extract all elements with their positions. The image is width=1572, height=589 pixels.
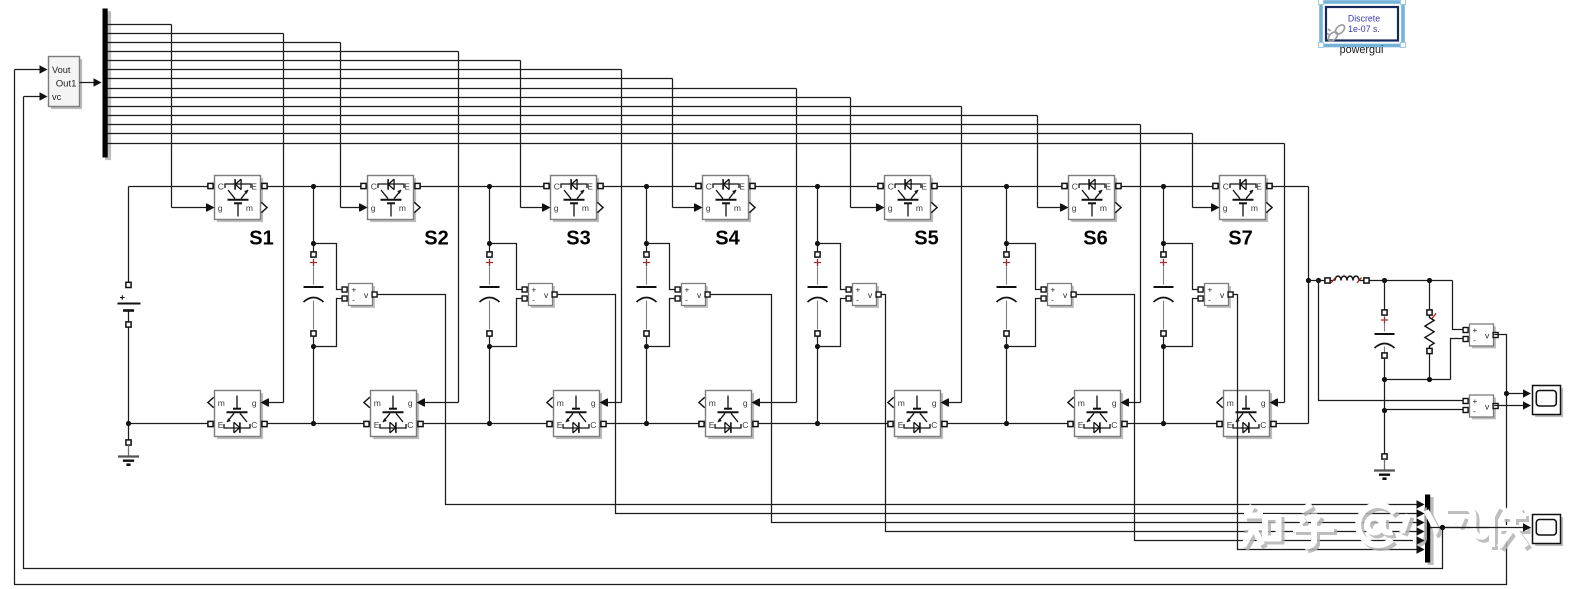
mux (6-to-1 capacitor voltages) bar <box>1425 495 1434 566</box>
label S6 <box>1083 228 1107 250</box>
svg-text:S4: S4 <box>715 228 740 250</box>
svg-text:powergui: powergui <box>1340 44 1384 56</box>
wire gate signal 8 to S4 lower IGBT gate <box>108 89 797 407</box>
label S3 <box>566 228 590 250</box>
oscilloscope Scope1 <box>1533 386 1564 418</box>
wire node to voltmeter VM7 plus <box>1453 281 1463 330</box>
transistor S3 lower IGBT/Diode block <box>547 391 607 440</box>
label S7 <box>1228 228 1252 250</box>
wire Out1 to demux with arrow <box>80 78 102 86</box>
watermark zhihu text <box>1242 505 1531 551</box>
controller subsystem block (Vout/vc -> Out1) <box>49 57 83 110</box>
wire gate signal 9 to S5 upper IGBT gate <box>108 98 885 212</box>
transistor S1 lower IGBT/Diode block <box>208 391 268 440</box>
wire mux output to Scope2 and vc feedback <box>24 97 1532 569</box>
voltmeter VM3 capacitor voltage measurement <box>675 284 710 308</box>
capacitor C5 flying capacitor <box>997 184 1017 426</box>
wire inductor to load network <box>1360 278 1453 283</box>
ground symbol left <box>118 424 139 465</box>
wire load bottom node <box>1382 377 1451 382</box>
inductor L1 <box>1331 276 1362 283</box>
transistor S3 upper IGBT/Diode block <box>543 176 603 223</box>
demux (1-to-14 signal splitter) bar <box>103 9 112 161</box>
wire gate signal 7 to S4 upper IGBT gate <box>108 79 703 212</box>
voltmeter VM1 capacitor voltage measurement <box>342 284 377 308</box>
label S4 <box>715 228 740 250</box>
wire capacitor C6 to voltmeter <box>1164 244 1198 347</box>
wire gate signal 10 to S5 lower IGBT gate <box>108 107 962 407</box>
wire pre-inductor tap to voltmeter VM8 plus <box>1319 281 1463 401</box>
wire voltmeter VM5 output to mux <box>1076 295 1424 545</box>
wire voltmeter VM1 output to mux <box>377 295 1424 509</box>
svg-text:Vout: Vout <box>52 65 71 75</box>
wire capacitor C4 to voltmeter <box>818 244 846 347</box>
wire voltmeter VM4 output to mux <box>881 295 1424 536</box>
oscilloscope Scope2 <box>1533 515 1564 547</box>
transistor S7 upper IGBT/Diode block <box>1212 176 1272 223</box>
wire bottom dc rail <box>129 423 1309 425</box>
svg-text:S3: S3 <box>566 228 590 250</box>
transistor S1 upper IGBT/Diode block <box>207 176 267 223</box>
svg-text:S5: S5 <box>914 228 938 250</box>
svg-text:1e-07 s.: 1e-07 s. <box>1348 24 1380 34</box>
voltmeter VM5 capacitor voltage measurement <box>1041 284 1076 308</box>
transistor S7 lower IGBT/Diode block <box>1217 391 1277 440</box>
wire voltmeter VM6 output to mux <box>1233 295 1424 554</box>
voltmeter VM6 capacitor voltage measurement <box>1198 284 1233 308</box>
svg-text:S7: S7 <box>1228 228 1252 250</box>
label S5 <box>914 228 938 250</box>
wire Vout input with arrow <box>15 65 48 73</box>
transistor S6 upper IGBT/Diode block <box>1061 176 1121 223</box>
resistor R1 load resistor <box>1425 281 1436 380</box>
wire voltmeter VM2 output to mux <box>557 295 1424 518</box>
wire gate signal 2 to S1 lower IGBT gate <box>108 34 284 407</box>
transistor S4 upper IGBT/Diode block <box>695 176 755 223</box>
capacitor C2 flying capacitor <box>480 184 500 426</box>
wire top dc rail <box>129 186 1309 188</box>
svg-text:Out1: Out1 <box>56 79 77 90</box>
wire capacitor C2 to voltmeter <box>490 244 522 347</box>
voltmeter VM8 measurement <box>1463 395 1498 419</box>
wire gate signal 6 to S3 lower IGBT gate <box>108 70 622 407</box>
transistor S2 lower IGBT/Diode block <box>364 391 424 440</box>
svg-text:Discrete: Discrete <box>1348 14 1380 24</box>
mux input arrows <box>1417 500 1425 553</box>
wire mux output to scope redrawn <box>1430 523 1531 531</box>
svg-text:S1: S1 <box>249 228 273 250</box>
wire junction to Scope1 input 1 <box>1507 389 1532 397</box>
svg-text:vc: vc <box>52 92 62 102</box>
wire output node vertical joining rails <box>1308 187 1310 424</box>
voltmeter VM4 capacitor voltage measurement <box>846 284 881 308</box>
wire gate signal 5 to S3 upper IGBT gate <box>108 61 551 212</box>
wire capacitor C3 to voltmeter <box>647 244 675 347</box>
label S2 <box>424 228 448 250</box>
powergui block (Discrete 1e-07 s.) <box>1319 0 1406 48</box>
wire output node to inductor <box>1309 278 1335 283</box>
capacitor C8 output filter capacitor <box>1375 281 1395 380</box>
wire gate signal 13 to S7 upper IGBT gate <box>108 134 1220 212</box>
voltmeter VM2 capacitor voltage measurement <box>522 284 557 308</box>
transistor S5 lower IGBT/Diode block <box>888 391 948 440</box>
transistor S5 upper IGBT/Diode block <box>877 176 937 223</box>
wire gate signal 14 to S7 lower IGBT gate <box>108 144 1285 407</box>
capacitor C6 flying capacitor <box>1154 184 1174 426</box>
node output junction dots <box>1306 278 1321 283</box>
wire vc input with arrow <box>24 92 48 100</box>
voltmeter VM7 output voltage measurement <box>1463 324 1498 348</box>
wire load bottom to voltmeter VM7 minus <box>1451 339 1463 380</box>
capacitor C1 flying capacitor <box>304 184 324 426</box>
ground symbol output <box>1374 454 1395 479</box>
wire voltmeter VM8 output to Scope1 input 2 <box>1494 401 1531 409</box>
transistor S4 lower IGBT/Diode block <box>699 391 759 440</box>
wire load bottom to ground <box>1382 380 1387 454</box>
wire gate signal 4 to S2 lower IGBT gate <box>108 52 459 407</box>
label powergui <box>1340 44 1384 56</box>
transistor S6 lower IGBT/Diode block <box>1068 391 1128 440</box>
wire voltmeter VM3 output to mux <box>710 295 1424 527</box>
wire capacitor C1 to voltmeter <box>314 244 342 347</box>
wire gate signal 11 to S6 upper IGBT gate <box>108 116 1069 212</box>
svg-text:S2: S2 <box>424 228 448 250</box>
capacitor C3 flying capacitor <box>637 184 657 426</box>
wire cap bottom tap to voltmeter VM8 minus <box>1385 409 1463 411</box>
dc voltage source battery <box>118 187 141 427</box>
capacitor C4 flying capacitor <box>808 184 828 426</box>
wire gate signal 3 to S2 upper IGBT gate <box>108 43 368 212</box>
svg-text:S6: S6 <box>1083 228 1107 250</box>
wire gate signal 12 to S6 lower IGBT gate <box>108 125 1141 407</box>
transistor S2 upper IGBT/Diode block <box>360 176 420 223</box>
wire gate signal 1 to S1 upper IGBT gate <box>108 25 215 212</box>
label S1 <box>249 228 273 250</box>
wire capacitor C5 to voltmeter <box>1007 244 1041 347</box>
